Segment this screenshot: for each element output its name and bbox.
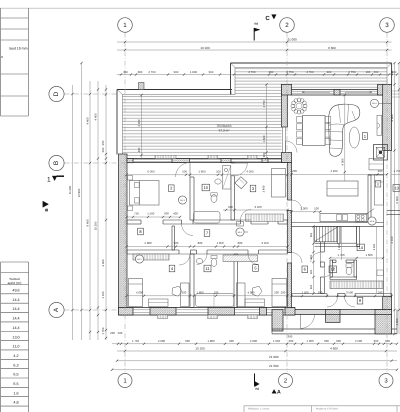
svg-text:1 800: 1 800 — [198, 170, 206, 174]
svg-text:0: 0 — [377, 182, 379, 186]
svg-text:57,3 m²: 57,3 m² — [219, 128, 230, 132]
svg-text:3 400: 3 400 — [263, 185, 266, 192]
svg-text:800: 800 — [198, 241, 203, 245]
svg-text:1,6: 1,6 — [13, 391, 18, 395]
svg-text:3 100: 3 100 — [255, 205, 262, 209]
svg-text:2 000: 2 000 — [250, 339, 257, 343]
svg-text:200: 200 — [118, 331, 123, 335]
svg-text:2 750: 2 750 — [286, 70, 294, 74]
svg-text:1 500: 1 500 — [395, 318, 399, 325]
svg-text:21 000: 21 000 — [288, 38, 298, 42]
svg-text:4 000: 4 000 — [248, 290, 255, 294]
svg-text:300: 300 — [310, 269, 313, 274]
svg-text:390: 390 — [288, 334, 293, 338]
svg-text:6,5: 6,5 — [13, 373, 18, 377]
svg-text:200: 200 — [110, 331, 115, 335]
svg-text:900: 900 — [229, 339, 234, 343]
svg-text:400: 400 — [137, 147, 141, 152]
svg-text:4,2: 4,2 — [13, 354, 18, 358]
svg-text:750: 750 — [134, 211, 139, 215]
svg-text:6 600: 6 600 — [328, 46, 336, 50]
svg-text:3 600: 3 600 — [137, 119, 141, 126]
svg-text:600: 600 — [310, 284, 313, 289]
svg-text:2 700: 2 700 — [148, 70, 156, 74]
svg-text:3 250: 3 250 — [262, 241, 269, 245]
svg-text:11,0: 11,0 — [13, 345, 20, 349]
svg-text:6 000: 6 000 — [147, 170, 155, 174]
svg-text:400: 400 — [374, 70, 379, 74]
svg-text:3 300: 3 300 — [373, 243, 376, 250]
svg-text:13: 13 — [394, 185, 399, 190]
svg-text:2 800: 2 800 — [145, 241, 152, 245]
svg-text:12: 12 — [331, 267, 336, 272]
svg-text:1 600: 1 600 — [262, 135, 266, 142]
svg-text:2 000: 2 000 — [158, 339, 165, 343]
svg-text:1 500: 1 500 — [147, 211, 154, 215]
svg-text:A: A — [53, 307, 60, 312]
svg-text:280: 280 — [269, 70, 274, 74]
svg-text:600: 600 — [164, 211, 169, 215]
svg-text:11 600: 11 600 — [68, 185, 72, 194]
svg-text:200: 200 — [281, 290, 286, 294]
svg-text:1 600: 1 600 — [366, 253, 373, 257]
svg-text:13 900: 13 900 — [77, 188, 81, 197]
svg-text:600: 600 — [310, 232, 313, 237]
svg-text:400: 400 — [123, 70, 128, 74]
svg-text:4 400: 4 400 — [86, 117, 90, 124]
svg-text:200: 200 — [274, 290, 279, 294]
svg-text:1 050: 1 050 — [217, 241, 224, 245]
svg-text:10 200: 10 200 — [200, 46, 210, 50]
svg-text:380: 380 — [138, 70, 143, 74]
svg-text:14,4: 14,4 — [12, 317, 19, 321]
svg-text:350: 350 — [374, 339, 379, 343]
svg-text:200: 200 — [378, 169, 383, 173]
svg-text:13,0: 13,0 — [12, 335, 19, 339]
svg-text:Põhiplaan. 1. korrus: Põhiplaan. 1. korrus — [248, 408, 270, 411]
svg-text:600: 600 — [289, 339, 294, 343]
svg-text:300: 300 — [262, 152, 266, 157]
svg-text:3 100: 3 100 — [390, 236, 394, 243]
svg-text:10 200: 10 200 — [195, 347, 205, 351]
svg-text:1 050: 1 050 — [273, 339, 280, 343]
svg-text:49,6: 49,6 — [12, 289, 19, 293]
svg-text:200: 200 — [327, 70, 332, 74]
svg-text:2 700: 2 700 — [306, 70, 314, 74]
svg-text:1 000: 1 000 — [307, 339, 314, 343]
svg-text:1 800: 1 800 — [197, 290, 204, 294]
svg-text:2 750: 2 750 — [262, 100, 266, 107]
svg-text:100: 100 — [182, 170, 187, 174]
svg-text:2 000: 2 000 — [301, 207, 308, 211]
svg-text:4 000: 4 000 — [340, 158, 344, 165]
svg-text:C: C — [265, 15, 270, 22]
svg-text:200: 200 — [101, 147, 105, 152]
svg-text:2 700: 2 700 — [248, 70, 256, 74]
svg-text:1 800: 1 800 — [208, 339, 215, 343]
svg-text:3 500: 3 500 — [346, 290, 353, 294]
svg-text:n: n — [1, 55, 3, 59]
svg-text:A: A — [277, 389, 281, 395]
svg-text:1 700: 1 700 — [338, 253, 345, 257]
svg-text:14: 14 — [359, 245, 364, 250]
svg-text:1 700: 1 700 — [101, 327, 105, 334]
svg-text:900: 900 — [174, 70, 179, 74]
svg-text:1 750: 1 750 — [394, 169, 400, 173]
svg-text:400: 400 — [173, 211, 178, 215]
svg-text:4 600: 4 600 — [330, 347, 338, 351]
svg-text:3: 3 — [385, 22, 389, 29]
svg-text:2: 2 — [285, 22, 289, 29]
svg-text:4,8: 4,8 — [13, 401, 18, 405]
svg-text:apind (m²): apind (m²) — [8, 281, 22, 285]
svg-text:21 000: 21 000 — [269, 355, 279, 359]
svg-text:Projekt nr 1707/2021: Projekt nr 1707/2021 — [316, 408, 339, 411]
svg-text:100: 100 — [182, 290, 187, 294]
svg-text:10: 10 — [204, 185, 209, 190]
svg-text:4 200: 4 200 — [330, 169, 338, 173]
svg-text:800: 800 — [238, 241, 243, 245]
svg-text:2 500: 2 500 — [302, 290, 309, 294]
svg-text:800: 800 — [310, 254, 313, 259]
svg-text:14,4: 14,4 — [12, 326, 19, 330]
svg-text:900: 900 — [324, 339, 329, 343]
svg-text:600: 600 — [336, 339, 341, 343]
svg-text:10 200: 10 200 — [94, 221, 98, 230]
svg-text:1: 1 — [47, 177, 51, 184]
svg-text:6,5: 6,5 — [13, 382, 18, 386]
svg-text:900: 900 — [209, 70, 214, 74]
svg-text:600: 600 — [228, 205, 233, 209]
svg-text:1 750: 1 750 — [132, 339, 139, 343]
svg-text:4 000: 4 000 — [246, 170, 254, 174]
svg-text:900: 900 — [185, 339, 190, 343]
svg-text:B: B — [53, 161, 60, 165]
svg-text:250: 250 — [101, 140, 105, 145]
svg-text:1 800: 1 800 — [190, 70, 198, 74]
svg-text:200: 200 — [318, 290, 323, 294]
svg-text:1: 1 — [123, 22, 127, 29]
svg-text:14,4: 14,4 — [12, 307, 19, 311]
svg-text:100: 100 — [314, 207, 319, 211]
svg-text:600: 600 — [385, 339, 390, 343]
svg-text:100: 100 — [216, 170, 221, 174]
svg-text:4 400: 4 400 — [101, 259, 105, 266]
svg-text:4 400: 4 400 — [94, 113, 98, 120]
svg-text:6 600: 6 600 — [395, 196, 399, 203]
svg-text:2 500: 2 500 — [355, 339, 362, 343]
svg-text:9 400: 9 400 — [86, 219, 90, 226]
svg-text:14,4: 14,4 — [12, 298, 19, 302]
svg-text:1 200: 1 200 — [338, 243, 341, 250]
svg-text:laud 19 mm: laud 19 mm — [9, 46, 27, 50]
svg-text:200: 200 — [292, 169, 297, 173]
svg-text:4 400: 4 400 — [390, 114, 394, 121]
svg-text:900: 900 — [390, 70, 394, 75]
svg-text:D: D — [53, 91, 60, 96]
svg-text:B: B — [44, 208, 49, 211]
svg-text:1 100: 1 100 — [101, 291, 105, 298]
svg-text:900: 900 — [174, 241, 179, 245]
svg-text:2 750: 2 750 — [348, 70, 356, 74]
svg-text:6,3: 6,3 — [13, 363, 18, 367]
svg-text:4 000: 4 000 — [136, 290, 143, 294]
svg-text:100: 100 — [214, 290, 219, 294]
svg-text:100: 100 — [366, 70, 371, 74]
svg-text:200: 200 — [378, 290, 383, 294]
svg-text:21 500: 21 500 — [269, 364, 279, 368]
